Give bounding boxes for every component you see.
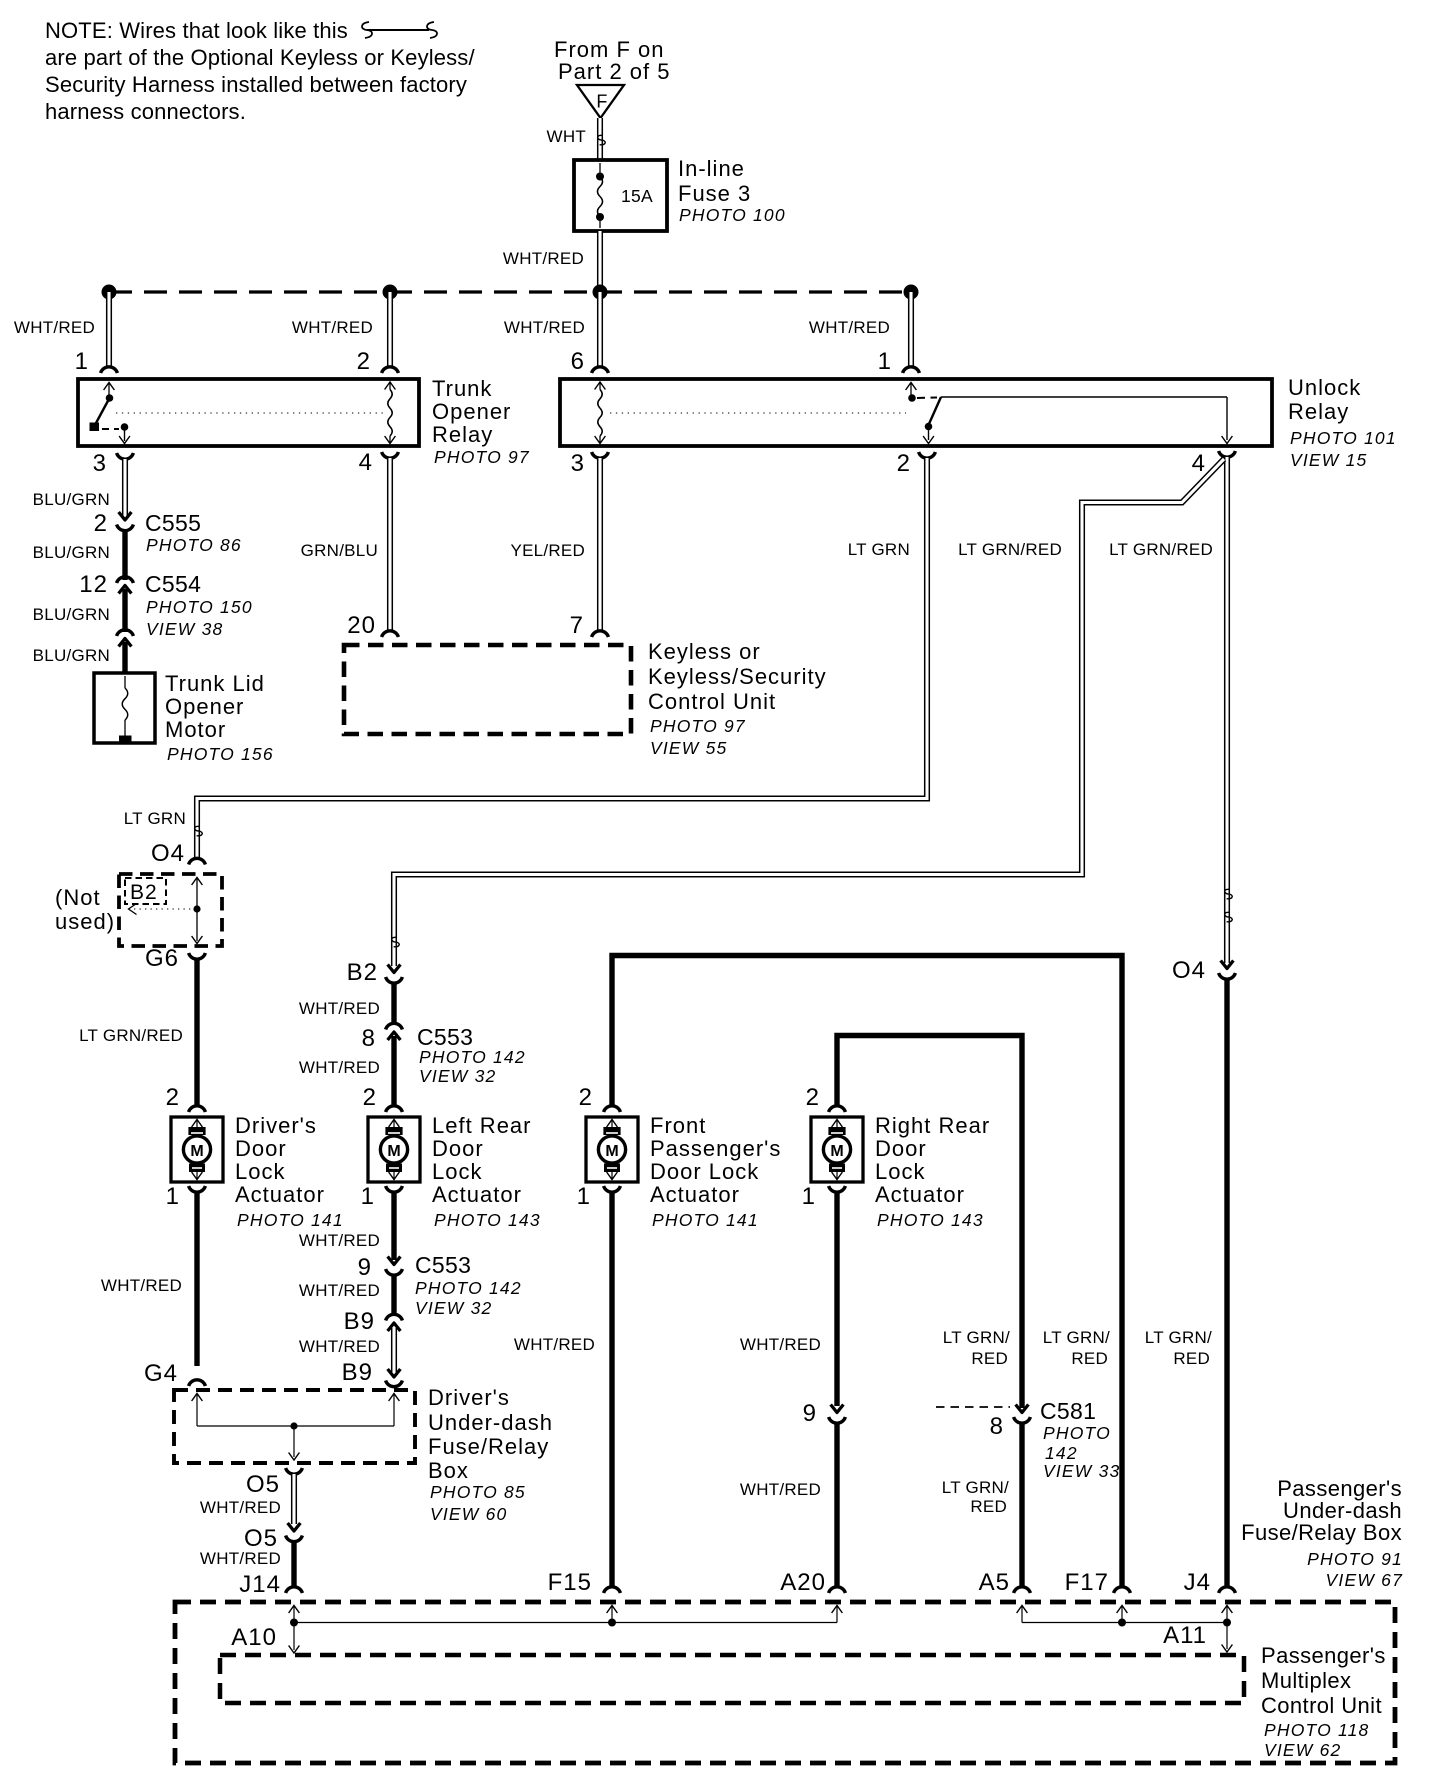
passenger's under-dash fuse/relay box — [175, 1602, 1395, 1763]
svg-text:PHOTO 143: PHOTO 143 — [434, 1210, 541, 1230]
label BLU/GRN — [33, 605, 110, 624]
svg-text:WHT: WHT — [547, 127, 586, 146]
svg-text:1: 1 — [802, 1183, 816, 1210]
label J4 — [1184, 1569, 1211, 1596]
svg-text:PHOTO 86: PHOTO 86 — [146, 535, 242, 555]
label WHT/RED — [514, 1335, 595, 1354]
svg-text:LT GRN/RED: LT GRN/RED — [1109, 540, 1213, 559]
svg-text:PHOTO 91: PHOTO 91 — [1307, 1549, 1403, 1569]
label WHT/RED — [504, 318, 585, 337]
svg-text:Control Unit: Control Unit — [1261, 1693, 1382, 1718]
svg-text:RED: RED — [970, 1497, 1007, 1516]
svg-text:1: 1 — [361, 1183, 375, 1210]
wire LT GRN/RED front passenger pin 2 to F17 — [612, 956, 1122, 1588]
svg-text:BLU/GRN: BLU/GRN — [33, 490, 110, 509]
connector cup actuator pin 2 — [604, 1106, 621, 1112]
door lock actuator pin 1 label — [361, 1183, 375, 1210]
label O5 — [246, 1471, 280, 1498]
connector cup at relay pin 1 — [101, 367, 118, 373]
svg-text:RED: RED — [1071, 1349, 1108, 1368]
wire WHT/RED front passenger pin 1 to F15 — [609, 1192, 614, 1587]
trunk relay coil to pin 4 — [385, 382, 396, 444]
svg-text:VIEW 15: VIEW 15 — [1290, 450, 1367, 470]
door lock actuator pin 1 label — [577, 1183, 591, 1210]
label B2 — [347, 959, 378, 986]
wire WHT/RED B2 to C553 — [391, 982, 396, 1025]
label (Not used) — [55, 885, 115, 934]
unlock relay pin 2 internal arrow — [923, 427, 934, 444]
note text about optional keyless/security harness wires — [45, 18, 475, 124]
label C555 PHOTO 86 — [145, 510, 242, 555]
label Trunk Opener Relay PHOTO 97 — [432, 376, 530, 467]
door lock actuator pin 2 label — [363, 1084, 377, 1111]
unlock relay pin 1 internal arrow — [906, 383, 917, 402]
label Driver's Door Lock Actuator PHOTO 141 — [235, 1113, 344, 1230]
junction node at bus x=911 — [904, 285, 919, 300]
svg-text:Motor: Motor — [165, 717, 226, 742]
svg-text:A20: A20 — [780, 1569, 826, 1596]
svg-text:PHOTO: PHOTO — [1043, 1423, 1111, 1443]
svg-text:G6: G6 — [145, 945, 179, 972]
svg-text:C554: C554 — [145, 571, 201, 597]
connector B2 — [386, 965, 403, 984]
label WHT/RED below fuse — [503, 249, 584, 268]
svg-text:Driver's: Driver's — [235, 1113, 317, 1138]
wire WHT/RED driver's actuator pin 1 to G4 — [194, 1192, 199, 1366]
wire WHT from triangle F to in-line fuse — [597, 118, 603, 161]
wire LT GRN/RED right rear pin 2 to C581 pin 8 — [837, 1036, 1022, 1409]
connector cup actuator pin 2 — [829, 1106, 846, 1112]
off-page connector triangle F — [577, 85, 624, 118]
svg-text:LT GRN/: LT GRN/ — [942, 1478, 1009, 1497]
label F15 — [548, 1569, 592, 1596]
svg-text:Fuse/Relay Box: Fuse/Relay Box — [1241, 1520, 1402, 1545]
label WHT/RED — [740, 1335, 821, 1354]
svg-text:A11: A11 — [1163, 1622, 1207, 1649]
label F17 — [1065, 1569, 1109, 1596]
label C553 PHOTO 142 VIEW 32 — [415, 1252, 522, 1318]
svg-text:2: 2 — [579, 1084, 593, 1111]
svg-text:GRN/BLU: GRN/BLU — [301, 541, 378, 560]
label C553 PHOTO 142 VIEW 32 — [417, 1024, 526, 1086]
svg-text:LT GRN/: LT GRN/ — [943, 1328, 1010, 1347]
connector O4 into driver's box — [189, 858, 206, 864]
door lock actuator motor Right Rear — [811, 1117, 863, 1182]
door lock actuator motor Left Rear — [368, 1117, 420, 1182]
label From F on Part 2 of 5 — [554, 37, 671, 84]
internal bus J14 F15 A20 — [289, 1606, 843, 1627]
svg-text:WHT/RED: WHT/RED — [299, 1337, 380, 1356]
svg-text:Under-dash: Under-dash — [428, 1410, 553, 1435]
wire BLU/GRN to motor — [122, 642, 127, 676]
driver's under-dash fuse/relay box (upper) — [119, 874, 222, 946]
trunk opener relay box — [78, 379, 419, 446]
wire GRN/BLU pin4 to keyless unit pin 20 — [387, 458, 393, 630]
svg-text:VIEW 32: VIEW 32 — [419, 1066, 496, 1086]
svg-text:VIEW 60: VIEW 60 — [430, 1504, 507, 1524]
svg-text:WHT/RED: WHT/RED — [809, 318, 890, 337]
wire WHT/RED O5 to J14 — [291, 1540, 296, 1587]
svg-text:F17: F17 — [1065, 1569, 1109, 1596]
optional harness mark on B2 drop wire — [392, 937, 399, 946]
label LT GRN/RED middle — [958, 540, 1062, 559]
svg-text:2: 2 — [806, 1084, 820, 1111]
label LT GRN at unlock relay — [848, 540, 910, 559]
svg-text:A5: A5 — [979, 1569, 1010, 1596]
wire WHT/RED left rear pin 1 to C553 pin 9 — [391, 1192, 396, 1260]
wire WHT/RED right rear pin 1 to pin 9 connector — [834, 1192, 839, 1406]
svg-text:NOTE: Wires that look like thi: NOTE: Wires that look like this — [45, 18, 348, 43]
label A10 — [231, 1624, 277, 1651]
label WHT/RED — [299, 1058, 380, 1077]
connector C554 pin 12 — [79, 571, 133, 598]
svg-text:Door: Door — [235, 1136, 287, 1161]
svg-text:VIEW 33: VIEW 33 — [1043, 1461, 1120, 1481]
label O4 on J4 wire — [1172, 957, 1206, 984]
svg-text:12: 12 — [79, 571, 108, 598]
label O4 — [151, 840, 185, 867]
wire WHT/RED drop to relay pin 1 at x=911 — [908, 292, 914, 367]
connector cup J14 — [286, 1587, 303, 1593]
label WHT — [547, 127, 586, 146]
svg-text:M: M — [830, 1143, 843, 1160]
connector cup A5 — [1014, 1587, 1031, 1593]
svg-text:1: 1 — [878, 348, 892, 375]
svg-text:Door Lock: Door Lock — [650, 1159, 759, 1184]
svg-text:M: M — [190, 1143, 203, 1160]
svg-text:LT GRN: LT GRN — [848, 540, 910, 559]
svg-text:VIEW 38: VIEW 38 — [146, 619, 223, 639]
connector C553 pin 9 — [358, 1254, 403, 1281]
svg-text:M: M — [387, 1143, 400, 1160]
svg-text:PHOTO 85: PHOTO 85 — [430, 1482, 526, 1502]
svg-text:B9: B9 — [342, 1359, 373, 1386]
connector cup G6 — [189, 953, 206, 959]
junction node at bus x=390 — [383, 285, 398, 300]
label J14 — [239, 1571, 281, 1598]
svg-text:WHT/RED: WHT/RED — [503, 249, 584, 268]
lower box internal lines G4 B9 to O5 — [192, 1394, 400, 1461]
connector cup keyless pin 20 — [382, 631, 399, 637]
svg-text:PHOTO 150: PHOTO 150 — [146, 597, 253, 617]
svg-text:2: 2 — [363, 1084, 377, 1111]
connector cup unlock pin 4 — [1219, 451, 1236, 457]
label A20 — [780, 1569, 826, 1596]
label Driver's Under-dash Fuse/Relay Box PHOTO 85 VIEW 60 — [428, 1385, 553, 1524]
trunk relay internal dotted link — [116, 412, 386, 414]
svg-text:LT GRN: LT GRN — [124, 809, 186, 828]
label WHT/RED — [101, 1276, 182, 1295]
pin 7 label keyless unit — [570, 612, 584, 639]
svg-text:are part of the Optional Keyle: are part of the Optional Keyless or Keyl… — [45, 45, 475, 70]
optional harness wire example symbol — [362, 22, 437, 38]
svg-text:3: 3 — [571, 450, 585, 477]
connector cup actuator pin 2 — [189, 1106, 206, 1112]
svg-text:used): used) — [55, 909, 115, 934]
connector B9 upper — [344, 1308, 403, 1335]
svg-text:VIEW 55: VIEW 55 — [650, 738, 727, 758]
label LT GRN/ RED for F17 wire — [1043, 1328, 1110, 1368]
internal wire A11 to multiplex unit — [1222, 1623, 1233, 1653]
wire WHT/RED C553 pin 9 to B9 — [391, 1274, 396, 1316]
svg-text:1: 1 — [75, 348, 89, 375]
svg-text:Actuator: Actuator — [650, 1182, 740, 1207]
svg-text:8: 8 — [362, 1025, 376, 1052]
connector cup F17 — [1114, 1587, 1131, 1593]
connector B9 into driver's box lower — [386, 1369, 403, 1387]
svg-text:Fuse/Relay: Fuse/Relay — [428, 1434, 549, 1459]
connector cup actuator pin 1 — [189, 1186, 206, 1192]
svg-text:BLU/GRN: BLU/GRN — [33, 646, 110, 665]
svg-text:B2: B2 — [347, 959, 378, 986]
svg-text:WHT/RED: WHT/RED — [200, 1549, 281, 1568]
svg-text:LT GRN/RED: LT GRN/RED — [79, 1026, 183, 1045]
svg-text:2: 2 — [897, 450, 911, 477]
svg-text:1: 1 — [166, 1183, 180, 1210]
wire WHT/RED from fuse to bus — [597, 231, 603, 292]
svg-text:In-line: In-line — [678, 156, 745, 181]
door lock actuator pin 2 label — [166, 1084, 180, 1111]
svg-text:O4: O4 — [1172, 957, 1206, 984]
unlock relay box — [560, 379, 1272, 446]
connector cup A20 — [829, 1587, 846, 1593]
svg-text:WHT/RED: WHT/RED — [299, 999, 380, 1018]
label LT GRN/ RED for A5 wire — [943, 1328, 1010, 1368]
label WHT/RED — [740, 1480, 821, 1499]
wire WHT/RED drop to relay pin 2 at x=390 — [387, 292, 393, 367]
internal wire A10 to multiplex unit — [289, 1623, 300, 1654]
keyless or keyless/security control unit box — [344, 645, 631, 734]
label WHT/RED — [299, 1281, 380, 1300]
svg-text:Relay: Relay — [432, 422, 493, 447]
unlock relay coil pins 6-3 — [595, 382, 606, 444]
wire BLU/GRN pin3 to C555 — [122, 459, 128, 516]
svg-text:1: 1 — [577, 1183, 591, 1210]
svg-text:BLU/GRN: BLU/GRN — [33, 543, 110, 562]
label WHT/RED — [292, 318, 373, 337]
trunk relay pin 1 internal arrow — [104, 383, 115, 402]
connector O5 pair — [244, 1523, 302, 1552]
svg-text:Right Rear: Right Rear — [875, 1113, 990, 1138]
in-line fuse 3 box 15A — [574, 160, 667, 231]
svg-text:Fuse 3: Fuse 3 — [678, 181, 751, 206]
label G6 — [145, 945, 179, 972]
svg-text:C553: C553 — [415, 1252, 471, 1278]
svg-text:Relay: Relay — [1288, 399, 1349, 424]
svg-text:Security Harness installed bet: Security Harness installed between facto… — [45, 72, 467, 97]
door lock actuator pin 2 label — [579, 1084, 593, 1111]
svg-text:M: M — [605, 1143, 618, 1160]
svg-text:O5: O5 — [246, 1471, 280, 1498]
wire LT GRN/RED G6 to driver's door lock actuator — [194, 959, 199, 1105]
svg-text:G4: G4 — [144, 1360, 178, 1387]
svg-text:2: 2 — [166, 1084, 180, 1111]
pin 2 label of unlock relay — [897, 450, 911, 477]
svg-text:BLU/GRN: BLU/GRN — [33, 605, 110, 624]
svg-text:WHT/RED: WHT/RED — [514, 1335, 595, 1354]
label Passenger's Multiplex Control Unit PHOTO 118 VIEW 62 — [1261, 1643, 1386, 1760]
label WHT/RED — [809, 318, 890, 337]
connector cup actuator pin 1 — [386, 1186, 403, 1192]
pin 4 label of trunk relay — [359, 449, 373, 476]
svg-text:Front: Front — [650, 1113, 706, 1138]
svg-text:WHT/RED: WHT/RED — [101, 1276, 182, 1295]
svg-text:8: 8 — [990, 1413, 1004, 1440]
wire YEL/RED unlock pin3 to keyless pin 7 — [597, 458, 603, 630]
label A11 — [1163, 1622, 1207, 1649]
connector C553 pin 8 — [362, 1023, 403, 1052]
label Right Rear Door Lock Actuator PHOTO 143 — [875, 1113, 990, 1230]
svg-text:Passenger's: Passenger's — [1261, 1643, 1386, 1668]
optional harness marks on LT GRN/RED wire — [1225, 889, 1232, 921]
svg-text:Part 2 of 5: Part 2 of 5 — [558, 59, 671, 84]
label LT GRN/RED right — [1109, 540, 1213, 559]
svg-text:15A: 15A — [621, 186, 653, 206]
connector cup J4 — [1219, 1587, 1236, 1593]
svg-text:7: 7 — [570, 612, 584, 639]
label Trunk Lid Opener Motor PHOTO 156 — [165, 671, 274, 764]
svg-text:RED: RED — [971, 1349, 1008, 1368]
wire WHT/RED drop to relay pin 6 at x=600 — [597, 292, 603, 367]
wire BLU/GRN C555 to C554 — [122, 530, 127, 580]
connector cup unlock pin 2 — [919, 452, 936, 458]
label BLU/GRN — [33, 646, 110, 665]
svg-text:WHT/RED: WHT/RED — [200, 1498, 281, 1517]
svg-text:Lock: Lock — [432, 1159, 482, 1184]
svg-text:Passenger's: Passenger's — [650, 1136, 781, 1161]
svg-text:F: F — [596, 92, 607, 112]
svg-text:Box: Box — [428, 1458, 469, 1483]
unlock relay switch arm and contacts — [917, 397, 941, 430]
svg-text:YEL/RED: YEL/RED — [511, 541, 586, 560]
svg-text:Keyless/Security: Keyless/Security — [648, 664, 827, 689]
svg-text:6: 6 — [571, 348, 585, 375]
svg-text:WHT/RED: WHT/RED — [299, 1281, 380, 1300]
trunk relay pin 3 internal arrow — [119, 427, 130, 444]
label WHT/RED — [299, 1231, 380, 1250]
connector cup at relay pin 1 — [903, 367, 920, 373]
unlock relay internal dotted link — [610, 412, 906, 414]
internal bus A5 F17 J4 — [1017, 1606, 1233, 1627]
label LT GRN/RED — [79, 1026, 183, 1045]
connector C581 pin 8 — [990, 1405, 1031, 1441]
connector to trunk lid opener motor — [117, 630, 134, 647]
svg-text:VIEW 32: VIEW 32 — [415, 1298, 492, 1318]
svg-text:O4: O4 — [151, 840, 185, 867]
svg-text:PHOTO 100: PHOTO 100 — [679, 205, 786, 225]
connector cup at relay pin 2 — [382, 367, 399, 373]
svg-text:LT GRN/RED: LT GRN/RED — [958, 540, 1062, 559]
svg-text:Lock: Lock — [235, 1159, 285, 1184]
label Passenger's Under-dash Fuse/Relay Box PHOTO 91 VIEW 67 — [1241, 1476, 1403, 1590]
svg-text:WHT/RED: WHT/RED — [740, 1480, 821, 1499]
svg-text:PHOTO 97: PHOTO 97 — [650, 716, 746, 736]
svg-text:J4: J4 — [1184, 1569, 1211, 1596]
svg-text:2: 2 — [357, 348, 371, 375]
label WHT/RED — [14, 318, 95, 337]
svg-text:WHT/RED: WHT/RED — [299, 1231, 380, 1250]
label LT GRN/ RED for J4 wire — [1145, 1328, 1212, 1368]
svg-text:RED: RED — [1173, 1349, 1210, 1368]
connector cup G4 — [189, 1380, 206, 1386]
label WHT/RED — [200, 1549, 281, 1568]
svg-text:Opener: Opener — [432, 399, 511, 424]
svg-text:Actuator: Actuator — [432, 1182, 522, 1207]
connector cup actuator pin 1 — [829, 1186, 846, 1192]
svg-text:Trunk: Trunk — [432, 376, 492, 401]
wire LT GRN/RED unlock pin 4 straight down to O4 — [1224, 457, 1230, 963]
svg-text:VIEW 67: VIEW 67 — [1326, 1570, 1404, 1590]
svg-text:Trunk Lid: Trunk Lid — [165, 671, 265, 696]
optional harness mark on WHT wire — [598, 135, 605, 144]
label In-line Fuse 3 PHOTO 100 — [678, 156, 786, 225]
connector pin 9 on A20 wire — [803, 1400, 846, 1427]
connector C555 pin 2 — [94, 510, 134, 537]
svg-text:Actuator: Actuator — [235, 1182, 325, 1207]
svg-text:PHOTO 101: PHOTO 101 — [1290, 428, 1397, 448]
label Left Rear Door Lock Actuator PHOTO 143 — [432, 1113, 541, 1230]
svg-text:harness connectors.: harness connectors. — [45, 99, 246, 124]
svg-text:4: 4 — [1192, 450, 1206, 477]
label YEL/RED — [511, 541, 586, 560]
pin number 6 — [571, 348, 585, 375]
label C554 PHOTO 150 VIEW 38 — [145, 571, 253, 639]
label A5 — [979, 1569, 1010, 1596]
unlock relay internal line to pin 4 — [941, 397, 1232, 444]
svg-text:PHOTO 118: PHOTO 118 — [1264, 1720, 1369, 1740]
connector cup keyless pin 7 — [592, 631, 609, 637]
label G4 — [144, 1360, 178, 1387]
pin 3 label of trunk relay — [93, 450, 107, 477]
connector cup pin 4 — [382, 452, 399, 458]
svg-text:C555: C555 — [145, 510, 201, 536]
svg-text:4: 4 — [359, 449, 373, 476]
svg-text:WHT/RED: WHT/RED — [740, 1335, 821, 1354]
svg-text:Actuator: Actuator — [875, 1182, 965, 1207]
svg-text:WHT/RED: WHT/RED — [292, 318, 373, 337]
svg-text:PHOTO 142: PHOTO 142 — [419, 1047, 526, 1067]
wire BLU/GRN C554 down — [122, 589, 127, 632]
svg-text:Control Unit: Control Unit — [648, 689, 776, 714]
label Keyless or Keyless/Security Control Unit PHOTO 97 VIEW 55 — [648, 639, 827, 758]
svg-text:Door: Door — [432, 1136, 484, 1161]
svg-text:3: 3 — [93, 450, 107, 477]
connector O4 pair on J4 wire — [1219, 961, 1236, 980]
trunk relay switch arm and contact — [90, 398, 129, 431]
label Unlock Relay PHOTO 101 VIEW 15 — [1288, 375, 1397, 470]
svg-text:PHOTO 142: PHOTO 142 — [415, 1278, 522, 1298]
pin 3 label of unlock relay — [571, 450, 585, 477]
svg-text:Door: Door — [875, 1136, 927, 1161]
svg-text:PHOTO 143: PHOTO 143 — [877, 1210, 984, 1230]
wire WHT/RED C553 to left rear actuator — [391, 1036, 396, 1105]
label BLU/GRN — [33, 490, 110, 509]
svg-text:Keyless or: Keyless or — [648, 639, 761, 664]
label BLU/GRN — [33, 543, 110, 562]
svg-text:142: 142 — [1045, 1443, 1078, 1463]
connector cup pin 3 — [117, 453, 134, 459]
optional harness mark on LT GRN wire — [195, 826, 202, 835]
connector cup unlock pin 3 — [592, 452, 609, 458]
door lock actuator motor Front — [586, 1117, 638, 1182]
label LT GRN at driver's box — [124, 809, 186, 828]
dashed optional link to C581 — [936, 1406, 1010, 1408]
label WHT/RED — [299, 999, 380, 1018]
driver's box internal dotted link to B2 — [129, 904, 201, 915]
svg-text:WHT/RED: WHT/RED — [14, 318, 95, 337]
wire WHT/RED O5 to O5 — [291, 1474, 297, 1524]
dashed bus wire WHT/RED — [109, 290, 911, 293]
